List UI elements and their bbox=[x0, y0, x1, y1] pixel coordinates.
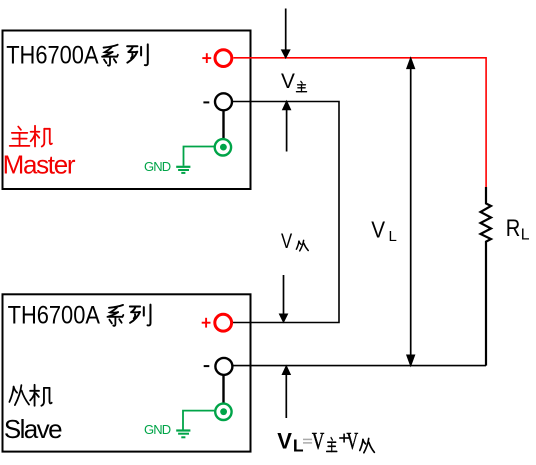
svg-text:L: L bbox=[293, 436, 304, 456]
svg-text:Slave: Slave bbox=[4, 414, 62, 444]
svg-text:V: V bbox=[371, 217, 385, 243]
svg-text:TH6700A: TH6700A bbox=[6, 41, 99, 69]
svg-text:L: L bbox=[521, 227, 530, 244]
svg-text:TH6700A: TH6700A bbox=[8, 301, 101, 329]
svg-text:Master: Master bbox=[3, 149, 76, 179]
svg-text:V: V bbox=[312, 427, 325, 455]
svg-text:V: V bbox=[277, 428, 292, 453]
svg-text:V: V bbox=[281, 230, 292, 253]
svg-text:GND: GND bbox=[144, 422, 171, 437]
svg-text:L: L bbox=[389, 228, 397, 245]
svg-text:V: V bbox=[347, 429, 359, 455]
svg-text:R: R bbox=[506, 214, 521, 241]
svg-text:V: V bbox=[281, 70, 295, 93]
svg-text:GND: GND bbox=[144, 159, 171, 174]
